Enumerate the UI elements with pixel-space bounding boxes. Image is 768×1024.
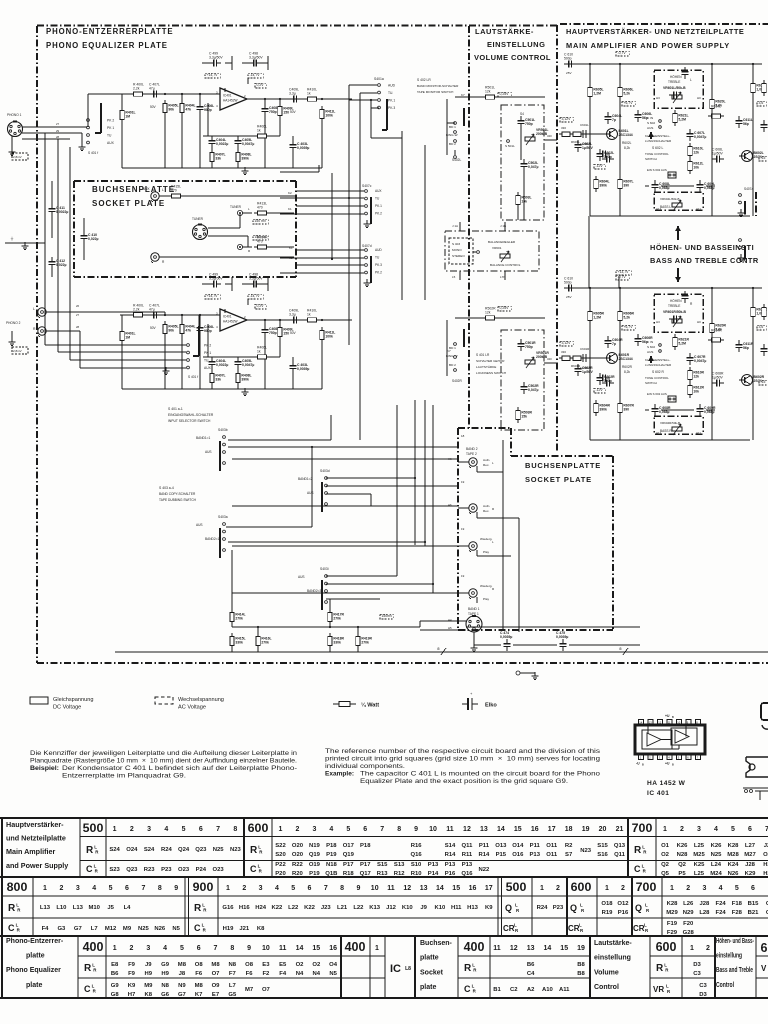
svg-text:10: 10 [429,826,437,833]
svg-text:Q16: Q16 [461,871,473,877]
svg-text:0,25V: 0,25V [500,92,510,96]
svg-text:R: R [580,928,584,933]
svg-text:8: 8 [397,826,401,833]
svg-text:R: R [95,869,99,874]
svg-text:EIN S 602 AUS: EIN S 602 AUS [647,392,667,396]
svg-text:H11: H11 [696,207,701,211]
svg-text:R24: R24 [537,905,549,911]
svg-text:C601L: C601L [580,123,589,127]
svg-text:R: R [93,968,97,973]
svg-text:S24: S24 [144,847,155,853]
svg-text:0,2V: 0,2V [257,304,265,308]
svg-text:11: 11 [446,826,454,833]
svg-text:L13: L13 [40,905,51,911]
svg-text:H0: H0 [697,320,701,324]
svg-text:H2: H2 [763,871,768,877]
svg-text:A11: A11 [559,987,570,993]
svg-text:R: R [643,869,647,874]
svg-text:5: 5 [731,826,735,833]
svg-text:5: 5 [109,885,113,892]
svg-text:700: 700 [636,880,657,894]
svg-text:VOLUME CONTROL: VOLUME CONTROL [474,53,551,62]
svg-text:H7: H7 [128,992,136,998]
svg-text:R: R [643,850,647,855]
svg-text:VR604R/50k-B: VR604R/50k-B [660,421,680,425]
svg-text:11: 11 [387,885,395,892]
svg-text:platte: platte [420,955,439,962]
svg-text:1,2M: 1,2M [593,316,601,320]
svg-text:0,0047µ: 0,0047µ [242,363,254,367]
svg-text:1: 1 [690,945,694,952]
svg-text:R: R [667,989,671,994]
svg-text:C2: C2 [510,987,518,993]
svg-text:VR601R/50k-B: VR601R/50k-B [663,310,687,314]
svg-text:1,2M: 1,2M [593,92,601,96]
svg-text:N18: N18 [326,862,338,868]
svg-text:R: R [250,845,258,856]
svg-text:R: R [259,869,263,874]
svg-text:500p: 500p [564,56,572,60]
svg-text:R: R [194,903,202,914]
svg-text:0,047µ: 0,047µ [528,388,538,392]
svg-text:9: 9 [247,945,251,952]
svg-text:PK 2: PK 2 [107,118,114,122]
svg-text:H3: H3 [656,320,660,324]
svg-text:H11: H11 [451,905,462,911]
svg-text:J8: J8 [179,971,186,977]
svg-text:27: 27 [76,313,80,317]
svg-text:50V: 50V [150,326,157,330]
svg-text:Main Amplifier: Main Amplifier [6,847,55,856]
svg-text:25V: 25V [566,295,572,299]
svg-text:400: 400 [83,940,104,954]
svg-text:-U: -U [636,762,640,766]
svg-text:LUNGSSCHALTER: LUNGSSCHALTER [645,139,672,143]
svg-text:15k: 15k [521,415,527,419]
svg-text:O17: O17 [343,843,355,849]
svg-text:H16: H16 [239,905,251,911]
svg-text:K7: K7 [195,992,203,998]
svg-text:M7: M7 [245,987,254,993]
svg-text:N28: N28 [677,852,689,858]
svg-text:R14: R14 [445,852,457,858]
svg-text:L: L [644,923,647,928]
svg-text:SOCKET PLATE: SOCKET PLATE [525,475,592,484]
svg-text:O1: O1 [661,843,670,849]
svg-text:S7: S7 [565,852,573,858]
svg-text:PK.1: PK.1 [375,204,382,208]
svg-text:K2: K2 [288,191,292,195]
svg-text:AUX: AUX [204,366,212,370]
svg-text:0,022µ: 0,022µ [88,237,98,241]
svg-text:C: C [634,864,641,874]
svg-text:TU: TU [204,358,209,362]
svg-text:3,3µ: 3,3µ [289,312,296,316]
svg-text:N19: N19 [309,843,321,849]
svg-text:BASS L: BASS L [660,205,671,209]
svg-text:B6: B6 [111,971,119,977]
svg-text:R24: R24 [161,847,173,853]
svg-text:17: 17 [548,826,556,833]
svg-text:R: R [162,260,165,264]
svg-text:600: 600 [571,880,592,894]
svg-text:Phono-Entzerrer-: Phono-Entzerrer- [6,938,64,945]
svg-text:C3: C3 [699,983,707,989]
svg-text:390k: 390k [599,184,607,188]
svg-text:13: 13 [420,885,428,892]
svg-text:6: 6 [751,885,755,892]
svg-text:O8: O8 [245,962,254,968]
svg-text:Wiederg.: Wiederg. [480,537,493,541]
svg-text:13: 13 [480,826,488,833]
svg-text:CR: CR [633,924,645,933]
svg-text:S 602 R: S 602 R [652,370,665,374]
svg-text:Q: Q [570,903,577,913]
svg-text:K29: K29 [745,871,757,877]
svg-text:Q23: Q23 [195,847,207,853]
svg-text:+13,7V: +13,7V [618,270,630,274]
svg-text:P18: P18 [360,843,371,849]
svg-text:3: 3 [76,885,80,892]
svg-text:1: 1 [605,885,609,892]
svg-text:K22: K22 [304,905,316,911]
svg-text:1µ/50V: 1µ/50V [712,375,724,379]
svg-text:L24: L24 [711,862,722,868]
svg-text:16: 16 [329,945,337,952]
svg-text:K22: K22 [271,905,283,911]
svg-text:R20: R20 [292,871,304,877]
svg-text:KLANGEINSTELL-: KLANGEINSTELL- [645,358,670,362]
svg-text:PK.2: PK.2 [375,212,382,216]
svg-text:19: 19 [461,527,465,531]
svg-text:R19: R19 [602,910,614,916]
svg-text:9: 9 [174,885,178,892]
svg-text:MONO: MONO [452,248,462,252]
svg-text:AUD: AUD [375,248,382,252]
svg-text:S20: S20 [275,852,286,858]
svg-text:500: 500 [506,880,527,894]
svg-text:B: B [672,716,674,719]
svg-text:Q2: Q2 [661,862,670,868]
svg-text:HAUPTVERSTÄRKER- UND NETZTEILP: HAUPTVERSTÄRKER- UND NETZTEILPLATTE [566,27,744,36]
svg-text:4: 4 [163,945,167,952]
svg-text:E7: E7 [212,992,220,998]
svg-text:plate: plate [420,984,436,991]
svg-text:F24: F24 [716,910,727,916]
svg-text:S 401 f: S 401 f [188,375,198,379]
svg-text:printed circuit into grid squa: printed circuit into grid squares (grid … [325,756,601,763]
svg-text:+6,7V: +6,7V [624,325,634,329]
svg-text:und Netzteilplatte: und Netzteilplatte [6,834,66,843]
svg-text:G9: G9 [111,983,120,989]
svg-text:AUS: AUS [205,450,212,454]
svg-text:P19: P19 [326,852,337,858]
svg-text:27: 27 [56,122,60,126]
svg-text:L21: L21 [337,905,348,911]
svg-text:B21: B21 [748,910,760,916]
svg-text:SWITCH: SWITCH [645,157,657,161]
svg-text:17: 17 [485,885,493,892]
svg-text:-14,7V: -14,7V [250,294,261,298]
svg-text:270k: 270k [235,617,243,621]
svg-text:Entzerrerplatte im Planquadrat: Entzerrerplatte im Planquadrat G9. [62,773,186,780]
svg-text:K10: K10 [402,905,414,911]
svg-text:S 403: S 403 [452,242,460,246]
svg-text:5: 5 [346,826,350,833]
svg-text:SWITCH: SWITCH [645,381,657,385]
svg-text:5,2k: 5,2k [623,92,630,96]
svg-text:330k: 330k [333,641,341,645]
svg-text:L13: L13 [73,905,84,911]
svg-text:S22: S22 [275,843,286,849]
svg-text:Q19: Q19 [309,852,321,858]
svg-text:IC: IC [390,963,401,975]
svg-text:M8: M8 [178,962,187,968]
svg-text:2: 2 [706,945,710,952]
svg-text:Q16: Q16 [411,852,423,858]
svg-text:0,0039µ: 0,0039µ [297,367,309,371]
svg-text:0,068µ: 0,068µ [659,410,669,414]
svg-text:11: 11 [279,945,287,952]
svg-text:AUS: AUS [196,523,203,527]
svg-text:2: 2 [244,94,246,98]
svg-text:D3: D3 [693,962,701,968]
svg-text:O2: O2 [312,962,321,968]
svg-text:K24: K24 [728,862,740,868]
svg-text:Hauptverstärker-: Hauptverstärker- [6,820,64,829]
svg-text:150: 150 [283,332,289,336]
svg-text:O9: O9 [212,983,221,989]
svg-text:CR: CR [503,924,515,933]
svg-text:Beispiel:: Beispiel: [30,765,59,772]
svg-text:1: 1 [113,826,117,833]
svg-text:Q23: Q23 [126,867,138,873]
svg-text:N23: N23 [230,847,242,853]
svg-text:Q2: Q2 [678,862,687,868]
svg-text:BAND2=1: BAND2=1 [205,537,219,541]
svg-text:S16: S16 [597,852,608,858]
svg-text:PHONO EQUALIZER PLATE: PHONO EQUALIZER PLATE [46,41,168,50]
svg-text:K1: K1 [288,207,292,211]
svg-text:C: C [84,984,91,994]
svg-text:2,2k: 2,2k [133,307,140,311]
svg-text:AUX: AUX [375,189,382,193]
svg-text:BAND COPY-SCHALTER: BAND COPY-SCHALTER [159,492,196,496]
svg-text:6: 6 [748,826,752,833]
svg-text:8: 8 [230,945,234,952]
svg-text:J9: J9 [420,905,427,911]
svg-text:4: 4 [329,826,333,833]
svg-text:9: 9 [356,885,360,892]
svg-text:F4: F4 [42,926,50,932]
svg-text:B: B [642,764,644,767]
svg-text:N8: N8 [229,962,237,968]
svg-text:270k: 270k [261,641,269,645]
svg-text:2: 2 [621,885,625,892]
svg-text:PK.3: PK.3 [388,106,395,110]
svg-text:33k: 33k [215,157,221,161]
svg-text:Socket: Socket [420,969,444,976]
svg-text:R: R [86,845,94,856]
svg-text:1: 1 [670,885,674,892]
svg-text:K28: K28 [667,901,679,907]
svg-text:0,0047µ: 0,0047µ [242,142,254,146]
svg-text:S401a: S401a [374,77,384,81]
svg-text:Q11: Q11 [462,843,474,849]
svg-text:6: 6 [197,945,201,952]
svg-text:S407d: S407d [362,244,372,248]
svg-text:LAUTSTÄRKE: LAUTSTÄRKE [476,365,496,369]
svg-text:7: 7 [141,885,145,892]
svg-text:0,0039µ: 0,0039µ [297,146,309,150]
svg-text:390: 390 [623,184,629,188]
svg-text:1µ/50V: 1µ/50V [712,151,724,155]
svg-text:R: R [203,928,207,933]
svg-text:L: L [515,903,518,908]
svg-text:R: R [95,850,99,855]
svg-text:7: 7 [380,826,384,833]
svg-text:P16: P16 [445,871,456,877]
svg-text:J12: J12 [386,905,397,911]
svg-text:AUS: AUS [307,491,314,495]
svg-text:15: 15 [312,945,320,952]
svg-text:R: R [646,908,650,913]
svg-text:2: 2 [295,826,299,833]
svg-text:G9: G9 [161,962,170,968]
svg-text:TU.: TU. [388,91,393,95]
svg-text:AUS: AUS [647,350,653,354]
svg-text:TU: TU [375,256,380,260]
svg-text:M9: M9 [123,926,132,932]
svg-text:1k: 1k [257,128,261,132]
svg-text:600: 600 [656,940,677,954]
svg-text:EINSTELLUNG: EINSTELLUNG [487,40,545,49]
svg-text:The reference number of the re: The reference number of the respective c… [325,748,600,755]
svg-text:einstellung: einstellung [716,953,742,960]
svg-text:C4: C4 [527,971,535,977]
svg-text:Aufn.: Aufn. [483,504,490,508]
svg-text:J23: J23 [321,905,332,911]
svg-text:470: 470 [257,205,263,209]
svg-text:M10: M10 [88,905,100,911]
svg-text:F6: F6 [246,971,254,977]
svg-text:S 401 LR: S 401 LR [476,353,490,357]
svg-text:C: C [8,923,15,933]
svg-text:AUD: AUD [388,83,396,87]
svg-text:3,3µ: 3,3µ [289,91,296,95]
svg-text:14: 14 [296,945,304,952]
svg-text:B8: B8 [577,962,585,968]
svg-text:P13: P13 [462,862,473,868]
svg-text:N22: N22 [478,867,490,873]
svg-text:H2: H2 [763,862,768,868]
svg-text:2,8mV: 2,8mV [13,155,22,159]
svg-text:P5: P5 [678,871,686,877]
svg-text:47k: 47k [185,108,191,112]
svg-text:O23: O23 [213,867,225,873]
svg-text:200k-B: 200k-B [536,132,548,136]
svg-text:7: 7 [324,885,328,892]
svg-text:F20: F20 [683,921,694,927]
svg-text:Control: Control [594,984,619,991]
svg-text:O19: O19 [309,862,321,868]
svg-text:AC Voltage: AC Voltage [178,705,206,711]
svg-text:L4: L4 [124,905,132,911]
svg-text:R: R [690,302,693,306]
svg-text:L: L [248,207,250,211]
svg-text:N4: N4 [296,971,304,977]
svg-text:F19: F19 [667,921,678,927]
svg-text:S407c: S407c [362,184,372,188]
svg-text:O2: O2 [763,852,768,858]
svg-text:P17: P17 [360,862,371,868]
svg-text:270k: 270k [333,617,341,621]
svg-text:L: L [690,78,692,82]
svg-text:BASS R: BASS R [660,429,672,433]
svg-text:16: 16 [531,826,539,833]
svg-text:19: 19 [461,574,465,578]
svg-text:O2: O2 [661,852,670,858]
svg-text:Q1B: Q1B [325,871,337,877]
svg-text:R: R [665,968,669,973]
svg-text:Phono Equalizer: Phono Equalizer [6,967,61,974]
svg-text:5: 5 [291,885,295,892]
svg-text:Die Kennziffer der jeweiligen: Die Kennziffer der jeweiligen Leiterplat… [30,750,298,757]
svg-text:0,0022µ: 0,0022µ [216,142,228,146]
svg-text:F6: F6 [195,971,203,977]
svg-text:3,12V: 3,12V [562,117,572,121]
svg-text:5,2M: 5,2M [678,342,686,346]
svg-text:14: 14 [436,885,444,892]
svg-text:P16: P16 [618,910,629,916]
svg-text:11: 11 [493,945,501,952]
svg-text:IC401: IC401 [223,94,232,98]
svg-text:50V: 50V [150,105,157,109]
svg-text:3,6: 3,6 [759,101,764,105]
svg-text:Q19: Q19 [343,852,355,858]
svg-text:+U: +U [665,714,670,718]
svg-text:O7: O7 [212,971,221,977]
svg-text:BD 1: BD 1 [449,125,456,129]
svg-text:J 1A: J 1A [452,224,458,228]
svg-text:Q: Q [505,903,512,913]
svg-text:C: C [464,984,471,994]
svg-text:F9: F9 [128,971,136,977]
svg-text:3,12V: 3,12V [562,341,572,345]
svg-text:25V: 25V [566,71,572,75]
svg-text:P23: P23 [161,867,172,873]
svg-text:R13: R13 [377,871,389,877]
svg-text:F2: F2 [262,971,270,977]
svg-text:3,3µ/50V: 3,3µ/50V [209,276,223,280]
svg-text:G3: G3 [57,926,66,932]
svg-text:S402R: S402R [452,379,462,383]
svg-text:L5: L5 [452,275,456,279]
svg-text:S15: S15 [377,862,388,868]
svg-text:IC401: IC401 [223,315,232,319]
svg-text:R601L: R601L [571,140,580,144]
svg-text:BASS AND TREBLE CONTR: BASS AND TREBLE CONTR [650,256,759,265]
svg-text:PK.2: PK.2 [375,271,382,275]
svg-text:P13: P13 [530,852,541,858]
svg-text:O23: O23 [178,867,190,873]
svg-text:3,3µ/50V: 3,3µ/50V [249,55,263,59]
svg-text:HA 1452 W: HA 1452 W [647,780,686,787]
svg-text:19: 19 [582,826,590,833]
svg-text:L25: L25 [694,843,705,849]
svg-text:L: L [492,461,494,465]
svg-text:AUX: AUX [107,141,115,145]
